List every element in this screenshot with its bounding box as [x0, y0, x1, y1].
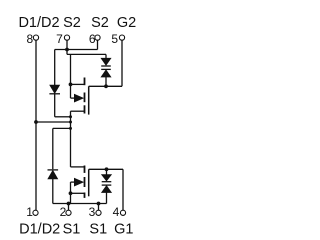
svg-text:7: 7: [56, 32, 63, 46]
zener Z1 top lead from gate wire: [106, 169, 108, 174]
body diode D2 top lead from S2 wire: [54, 50, 56, 86]
node D2 cathode junction: [69, 115, 72, 118]
pin 1 terminal circle: [33, 210, 38, 215]
node junction pin7/S2: [65, 48, 69, 52]
zener Z2 upper diode (anode up): [101, 58, 111, 65]
transistor Q1 channel segments: [84, 166, 86, 173]
svg-text:D1/D2: D1/D2: [19, 222, 60, 238]
body diode D1 (cathode up): [48, 169, 59, 171]
wire common drain drop: [70, 111, 72, 167]
node D1 cathode junction: [69, 127, 72, 130]
node pin2/S1 junction: [67, 202, 71, 206]
node Q2 gate/zener junction: [104, 84, 108, 88]
pin 4 terminal circle: [120, 210, 125, 215]
svg-text:5: 5: [111, 32, 118, 46]
svg-text:S1: S1: [89, 222, 107, 238]
wire Q2 source stub to channel: [71, 83, 85, 85]
transistor Q2 body arrow: [71, 97, 75, 99]
wire S1 bus: [53, 203, 107, 205]
node Q2 source stub junction: [69, 83, 73, 87]
wire rail to drop: [36, 121, 71, 123]
wire D1 cathode to drop: [53, 127, 71, 129]
wire pin2 stem: [68, 204, 70, 211]
node rail junction: [34, 120, 38, 124]
wire Q1 source lead: [70, 182, 72, 203]
wire Q1 gate to pin4: [89, 168, 123, 170]
wire zener Z2 top lead: [105, 54, 107, 58]
wire pin7 stem down: [66, 40, 68, 54]
svg-text:4: 4: [113, 205, 120, 219]
body diode D2 (cathode down): [50, 85, 60, 93]
wire Q1 drain stub: [71, 166, 85, 168]
svg-text:3: 3: [89, 205, 96, 219]
pin 2 terminal circle: [66, 210, 71, 215]
pin 8 terminal circle: [33, 35, 38, 40]
svg-text:8: 8: [26, 32, 33, 46]
svg-text:2: 2: [60, 205, 67, 219]
pin 7 terminal circle: [64, 35, 69, 40]
wire pin3 stem: [98, 204, 100, 211]
wire pin6 stem down: [97, 40, 99, 49]
wire Q2 drain stub: [71, 110, 85, 112]
node Q1 gate/zener junction: [105, 167, 109, 171]
body diode D1 bottom lead: [52, 179, 54, 204]
pin 5 terminal circle: [119, 35, 124, 40]
wire zener Z2 bottom lead to gate wire: [105, 77, 107, 86]
svg-text:D1/D2: D1/D2: [18, 15, 59, 31]
node Q1 source stub junction: [69, 191, 73, 195]
transistor Q2 gate bar: [88, 86, 90, 114]
wire pin5 stem riser: [121, 40, 123, 86]
body diode D2 bottom lead: [54, 94, 56, 117]
transistor Q2 channel segments: [84, 78, 86, 86]
zener Z1 lower diode (anode down): [102, 184, 112, 186]
zener Z2 lower diode (anode down): [101, 68, 111, 70]
transistor Q1 gate bar: [88, 169, 90, 196]
svg-text:G1: G1: [114, 222, 133, 238]
wire Q2 source lead down: [70, 54, 72, 98]
node pin3/S1 junction: [97, 202, 101, 206]
wire drain rail pin8 to pin1: [35, 40, 37, 210]
node drop junction: [69, 121, 72, 124]
svg-text:S1: S1: [63, 222, 81, 238]
wire S2 upper: diode top to pin6: [55, 49, 98, 51]
wire pin4 stem riser: [122, 169, 124, 210]
wire zener Z1 bottom lead: [106, 193, 108, 204]
pin 6 terminal circle: [95, 35, 100, 40]
zener Z1 upper diode (anode up): [102, 175, 112, 181]
wire D2 cathode to drop: [55, 116, 71, 118]
svg-text:1: 1: [26, 205, 33, 219]
transistor Q1 body arrow: [71, 181, 75, 183]
svg-text:G2: G2: [117, 15, 136, 31]
pin 3 terminal circle: [96, 210, 101, 215]
svg-text:S2: S2: [63, 15, 81, 31]
wire S2 lower: pin7 to zener top: [67, 53, 106, 55]
wire Q1 source stub to channel: [71, 192, 85, 194]
wire Q2 gate to pin5: [89, 85, 122, 87]
body diode D1 top lead: [52, 128, 54, 169]
svg-text:S2: S2: [91, 15, 109, 31]
